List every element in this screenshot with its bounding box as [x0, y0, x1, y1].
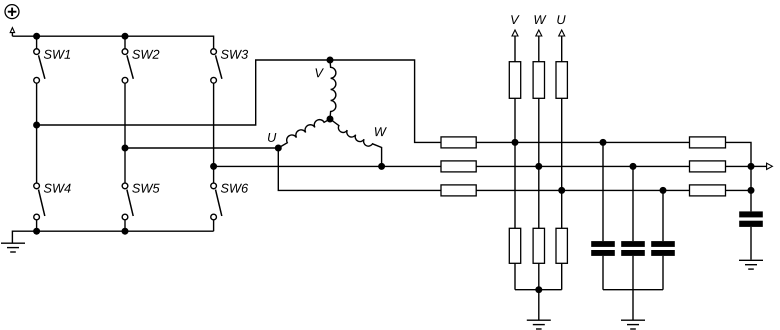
label U (winding)	[268, 133, 276, 142]
wire rail to SW1 top	[36, 36, 38, 49]
winding coil U	[278, 119, 330, 148]
wire tap U arrow to divider resistor	[561, 36, 563, 62]
ground (capacitor bank)	[621, 319, 645, 321]
wire row3 to right bus	[726, 189, 752, 191]
label SW1	[44, 50, 70, 59]
label U (tap output)	[557, 15, 565, 24]
switch SW5	[122, 183, 128, 189]
node capacitor C3 / row	[660, 187, 667, 194]
wire star point to ground	[538, 290, 540, 320]
wire SW3 bottom to row 2	[213, 84, 215, 167]
wire row 2 to SW6 top	[213, 166, 215, 182]
resistor row2 series (right)	[690, 161, 726, 172]
node winding star centre	[327, 116, 334, 123]
wire row1 to right bus	[726, 142, 752, 211]
node winding W / row 2	[378, 163, 385, 170]
switch SW4	[34, 183, 40, 189]
node ground rail / SW5	[122, 228, 129, 235]
resistor row3 series (left)	[441, 185, 476, 196]
capacitor C1	[591, 241, 615, 247]
arrow tap V	[512, 30, 518, 36]
wire row to capacitor C1	[602, 142, 604, 241]
capacitor output	[739, 211, 763, 217]
resistor divider top V	[509, 62, 520, 99]
wire divider V vertical	[514, 98, 516, 228]
wire row B to winding U	[125, 147, 278, 149]
label W (tap output)	[535, 15, 547, 24]
resistor divider bottom U	[556, 228, 567, 263]
wire row 2 bus (middle)	[476, 165, 689, 167]
node divider V / row	[512, 139, 519, 146]
node top rail / SW2	[122, 33, 129, 40]
wire rail to SW2 top	[124, 36, 126, 49]
wire row2 to right bus	[726, 165, 752, 167]
arrow output	[767, 163, 773, 169]
wire top supply rail	[12, 36, 213, 49]
resistor row1 series (left)	[441, 137, 476, 148]
wire SW6 bottom to ground rail	[213, 220, 215, 231]
resistor row3 series (right)	[690, 185, 726, 196]
wire row to capacitor C2	[632, 166, 634, 241]
arrow toward + terminal	[10, 28, 14, 33]
wire capacitor C2 to join	[632, 256, 634, 290]
node divider U / row	[558, 187, 565, 194]
ground (divider star point)	[527, 319, 551, 321]
wire U node to row 3	[278, 148, 441, 190]
node winding V top	[327, 57, 334, 64]
capacitor C3	[651, 241, 675, 247]
resistor row2 series (left)	[441, 161, 476, 172]
label SW4	[44, 184, 71, 193]
switch SW6	[211, 183, 217, 189]
wire divider U vertical	[561, 98, 563, 228]
wire row B to SW5 top	[124, 148, 126, 183]
arrow tap U	[559, 30, 565, 36]
label V (tap output)	[511, 15, 519, 24]
wire SW5 bottom to ground rail	[124, 220, 126, 231]
node capacitor C2 / row	[630, 163, 637, 170]
label SW2	[132, 50, 159, 59]
wire tap V arrow to divider resistor	[514, 36, 516, 62]
label V (winding)	[316, 68, 324, 77]
label W (winding)	[375, 127, 387, 136]
wire capacitor join	[603, 289, 663, 291]
wire SW4 bottom to ground rail	[36, 220, 38, 231]
arrow tap W	[536, 30, 542, 36]
wire SW1 bottom to row A	[36, 84, 38, 126]
wire row to capacitor C3	[662, 190, 664, 241]
wire row 2 bus (SW3 to resistor)	[214, 165, 441, 167]
power terminal + (DC supply)	[5, 5, 19, 19]
label SW3	[221, 50, 248, 59]
wire row 3 bus (middle)	[476, 189, 689, 191]
node top rail / SW1	[33, 33, 40, 40]
wire from + arrow to top rail	[11, 33, 13, 37]
label SW6	[221, 184, 248, 193]
resistor divider bottom V	[509, 228, 520, 263]
node row A / SW1-SW4	[33, 122, 40, 129]
node right bus / row2	[748, 163, 755, 170]
capacitor C2	[621, 241, 645, 247]
wire divider V to star point	[514, 263, 516, 289]
switch SW1	[34, 49, 40, 55]
resistor divider bottom W	[533, 228, 544, 263]
resistor row1 series (right)	[690, 137, 726, 148]
wire tap W arrow to divider resistor	[538, 36, 540, 62]
wire divider W vertical	[538, 98, 540, 228]
wire divider U to star point	[561, 263, 563, 289]
wire bottom ground rail	[12, 231, 213, 243]
wire SW2 bottom to row B	[124, 84, 126, 149]
wire row 1 bus (middle)	[476, 141, 689, 143]
wire capacitor join to ground	[632, 290, 634, 320]
ground (supply return)	[1, 242, 25, 244]
wire capacitor C3 to join	[662, 256, 664, 290]
winding coil V	[330, 60, 336, 119]
switch SW3	[211, 49, 217, 55]
node row B / SW2-SW5	[122, 145, 129, 152]
switch SW2	[122, 49, 128, 55]
node row 2 / SW3-SW6	[210, 163, 217, 170]
winding coil W	[330, 119, 382, 166]
node divider W / row	[535, 163, 542, 170]
wire output	[751, 165, 767, 167]
wire row A to SW4 top	[36, 125, 38, 183]
node winding U	[275, 145, 282, 152]
node capacitor C1 / row	[600, 139, 607, 146]
resistor divider top W	[533, 62, 544, 99]
ground (output capacitor)	[739, 259, 763, 261]
label SW5	[132, 184, 159, 193]
resistor divider top U	[556, 62, 567, 99]
wire output capacitor to ground	[750, 227, 752, 260]
wire divider W to star point	[538, 263, 540, 289]
wire divider star join	[515, 289, 562, 291]
node divider star point	[535, 286, 542, 293]
wire row A to V-phase riser	[37, 60, 441, 142]
node right bus / row3	[748, 187, 755, 194]
wire capacitor C1 to join	[602, 256, 604, 290]
node ground rail / SW4	[33, 228, 40, 235]
